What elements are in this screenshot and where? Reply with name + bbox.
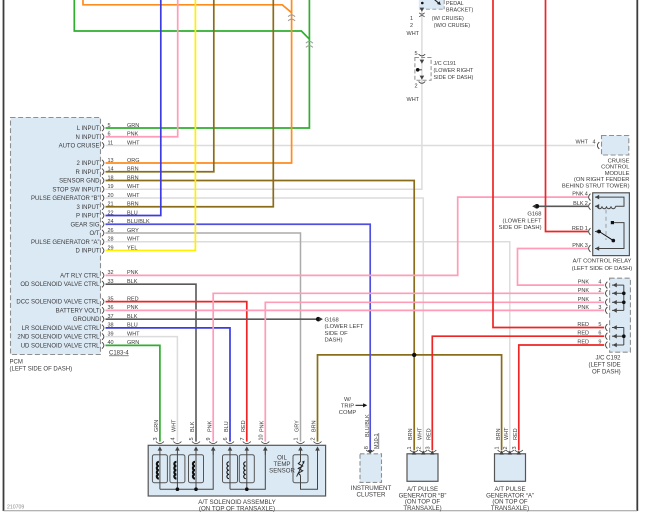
svg-text:OD SOLENOID VALVE CTRL: OD SOLENOID VALVE CTRL bbox=[20, 282, 100, 288]
svg-text:4: 4 bbox=[170, 437, 176, 440]
svg-text:WHT: WHT bbox=[418, 427, 424, 440]
wire WHT pin11 AUTO CRUISE to cruise control module bbox=[106, 145, 596, 147]
svg-text:A/T RLY CTRL: A/T RLY CTRL bbox=[60, 273, 100, 279]
wire ORG vertical from top edge to PCM pin13 2 INPUT bbox=[106, 0, 292, 163]
svg-text:6: 6 bbox=[598, 331, 601, 337]
svg-text:TRIP: TRIP bbox=[341, 403, 354, 409]
svg-text:1: 1 bbox=[495, 446, 501, 449]
svg-text:(LEFT SIDE: (LEFT SIDE bbox=[588, 363, 620, 369]
svg-text:TRANSAXLE): TRANSAXLE) bbox=[403, 505, 441, 512]
svg-text:CONTROL: CONTROL bbox=[601, 165, 630, 171]
svg-text:N INPUT: N INPUT bbox=[76, 135, 100, 141]
svg-text:(LOWER RIGHT: (LOWER RIGHT bbox=[434, 68, 475, 74]
svg-text:210709: 210709 bbox=[7, 505, 24, 511]
wire WHT stoplight/pedal to J/C C191 to PCM pin19 STOP SW INPUT bbox=[106, 8, 422, 189]
svg-text:COMP: COMP bbox=[339, 410, 357, 416]
svg-text:DCC SOLENOID VALVE CTRL: DCC SOLENOID VALVE CTRL bbox=[16, 300, 100, 306]
svg-text:2: 2 bbox=[585, 201, 588, 207]
junction dot on BRN sensor ground bbox=[412, 353, 416, 357]
svg-text:RED: RED bbox=[427, 428, 433, 440]
A/T pulse generator A box bbox=[495, 454, 526, 482]
wire PNK pin36 BATTERY VOLT to J/C C192 pin3 bbox=[106, 309, 605, 311]
svg-text:SIDE OF DASH): SIDE OF DASH) bbox=[499, 225, 542, 231]
svg-text:9: 9 bbox=[206, 437, 212, 440]
wire BRN branch to pulse generator A pin1 bbox=[414, 355, 501, 450]
svg-text:4: 4 bbox=[598, 280, 601, 286]
wire RED from top edge to J/C C192 pin5 bbox=[493, 0, 604, 328]
wire PNK pin6 N INPUT to top edge bbox=[106, 0, 178, 137]
wire RED J/C C192 pin9 to pulse generator A pin3 bbox=[519, 345, 604, 450]
wire GRY pin26 O/T to oil temp sensor pin1 bbox=[106, 233, 301, 442]
svg-text:2: 2 bbox=[311, 437, 317, 440]
svg-text:SIDE OF: SIDE OF bbox=[325, 331, 349, 337]
svg-text:(LOWER LEFT: (LOWER LEFT bbox=[325, 324, 364, 330]
svg-text:AUTO CRUISE: AUTO CRUISE bbox=[59, 144, 100, 150]
solenoid coil L1 bbox=[152, 455, 167, 483]
svg-text:A/T CONTROL RELAY: A/T CONTROL RELAY bbox=[573, 259, 632, 265]
wire PNK relay pin3 to J/C C192 pin4 bbox=[518, 249, 605, 286]
svg-text:PEDAL: PEDAL bbox=[446, 1, 464, 7]
svg-text:BRN: BRN bbox=[408, 428, 414, 440]
svg-text:2: 2 bbox=[414, 84, 417, 90]
wire BLK pin33 OD SOLENOID VALVE CTRL to solenoid pin5 bbox=[106, 284, 197, 441]
svg-text:P INPUT: P INPUT bbox=[76, 214, 100, 220]
svg-text:G168: G168 bbox=[325, 317, 339, 323]
wire PNK J/C C192 pin2 to solenoid pin9 bbox=[213, 293, 604, 441]
svg-text:3: 3 bbox=[425, 446, 431, 449]
svg-text:1: 1 bbox=[407, 446, 413, 449]
svg-text:SIDE OF DASH): SIDE OF DASH) bbox=[434, 75, 474, 81]
svg-text:WHT: WHT bbox=[504, 427, 510, 440]
svg-text:3: 3 bbox=[598, 305, 601, 311]
svg-text:2: 2 bbox=[598, 288, 601, 294]
wire GRN pin40 UD SOLENOID VALVE CTRL to solenoid pin3 bbox=[106, 345, 160, 441]
solenoid coil L5 bbox=[239, 455, 254, 483]
PCM module box bbox=[11, 118, 101, 355]
svg-text:PULSE GENERATOR “A”: PULSE GENERATOR “A” bbox=[31, 240, 99, 246]
ground G168 at PCM pin37 bbox=[316, 317, 321, 322]
svg-text:1: 1 bbox=[294, 437, 300, 440]
svg-text:PCM: PCM bbox=[10, 360, 23, 366]
svg-text:(W/O CRUISE): (W/O CRUISE) bbox=[434, 23, 470, 29]
svg-text:TRANSAXLE): TRANSAXLE) bbox=[491, 505, 529, 512]
svg-text:BATTERY VOLT: BATTERY VOLT bbox=[56, 308, 100, 314]
solenoid return bus 1 to pin9 bbox=[160, 449, 213, 489]
svg-text:G168: G168 bbox=[527, 211, 541, 217]
J/C C192 red bus bbox=[623, 328, 625, 346]
svg-text:2: 2 bbox=[416, 446, 422, 449]
svg-text:OF DASH): OF DASH) bbox=[592, 369, 621, 375]
wire BLU/BLK pin24 GEAR SIG to instrument cluster bbox=[106, 224, 371, 450]
wire BLK relay pin2 to ground G168 bbox=[539, 205, 589, 207]
svg-text:(ON RIGHT FENDER: (ON RIGHT FENDER bbox=[574, 177, 630, 183]
solenoid return bus 2 to pin10 bbox=[230, 449, 265, 489]
svg-text:RED: RED bbox=[577, 331, 589, 337]
svg-text:PULSE GENERATOR “B”: PULSE GENERATOR “B” bbox=[31, 196, 99, 202]
svg-text:(ON TOP OF TRANSAXLE): (ON TOP OF TRANSAXLE) bbox=[199, 505, 275, 512]
svg-text:5: 5 bbox=[189, 437, 195, 440]
svg-text:RED: RED bbox=[572, 226, 584, 232]
wire WHT pin28 PULSE GENERATOR A to pulse generator A pin2 bbox=[106, 242, 510, 451]
svg-text:GRN: GRN bbox=[154, 420, 160, 432]
wire PNK pin32 A/T RLY CTRL to relay pin4 bbox=[106, 197, 589, 275]
svg-text:3: 3 bbox=[512, 446, 518, 449]
wire BRN branch to oil temp sensor pin2 bbox=[318, 355, 415, 442]
wire BRN pin21 3 INPUT to top edge bbox=[106, 0, 274, 207]
inline connector on pedal wire bbox=[419, 13, 424, 17]
svg-text:4: 4 bbox=[585, 192, 588, 198]
svg-text:WHT: WHT bbox=[575, 140, 588, 146]
solenoid coil L3 bbox=[189, 455, 204, 483]
svg-text:3 INPUT: 3 INPUT bbox=[76, 205, 99, 211]
svg-text:2 INPUT: 2 INPUT bbox=[76, 161, 99, 167]
wire BLU pin22 P INPUT to top edge bbox=[106, 0, 161, 216]
A/T pulse generator B box bbox=[407, 454, 438, 482]
svg-text:RED: RED bbox=[241, 420, 247, 432]
svg-text:RED: RED bbox=[577, 340, 589, 346]
svg-text:PNK: PNK bbox=[578, 280, 590, 286]
svg-text:BRACKET): BRACKET) bbox=[446, 8, 473, 14]
svg-text:8: 8 bbox=[364, 446, 370, 449]
svg-text:CRUISE: CRUISE bbox=[608, 158, 630, 164]
svg-text:MODULE: MODULE bbox=[605, 171, 630, 177]
wire ORG top-left branch into vertical riser bbox=[83, 0, 292, 13]
svg-text:SENSOR GND: SENSOR GND bbox=[59, 179, 100, 185]
solenoid coil L4 bbox=[223, 455, 238, 483]
svg-text:PNK: PNK bbox=[572, 192, 584, 198]
svg-text:BLK: BLK bbox=[190, 421, 196, 432]
relay switch bbox=[595, 229, 599, 234]
svg-text:RED: RED bbox=[513, 428, 519, 440]
svg-text:DASH): DASH) bbox=[325, 338, 343, 344]
wire BRN pin14 R INPUT to top edge bbox=[106, 0, 214, 172]
relay actuator dashed link bbox=[605, 210, 607, 241]
svg-text:PNK: PNK bbox=[260, 420, 266, 432]
wire WHT pin20 PULSE GENERATOR B to pulse generator B pin2 bbox=[106, 198, 424, 450]
svg-text:BLU/BLK: BLU/BLK bbox=[365, 414, 371, 437]
wire BLK pin37 GROUND to ground G168 bbox=[106, 318, 318, 320]
svg-text:WHT: WHT bbox=[172, 419, 178, 432]
svg-text:LR SOLENOID VALVE CTRL: LR SOLENOID VALVE CTRL bbox=[22, 326, 100, 332]
wire WHT pin39 2ND SOLENOID VALVE CTRL to solenoid pin4 bbox=[106, 337, 178, 442]
page right border bbox=[636, 0, 638, 511]
page left border bbox=[3, 0, 5, 511]
wire PNK J/C C192 pin1 to solenoid pin10 bbox=[265, 302, 604, 441]
svg-text:STOP SW INPUT: STOP SW INPUT bbox=[52, 187, 99, 193]
svg-text:(LOWER LEFT: (LOWER LEFT bbox=[503, 218, 542, 224]
svg-text:BLU: BLU bbox=[224, 421, 230, 432]
svg-text:PNK: PNK bbox=[572, 243, 584, 249]
svg-text:(LEFT SIDE OF DASH): (LEFT SIDE OF DASH) bbox=[572, 266, 633, 272]
svg-text:D INPUT: D INPUT bbox=[76, 249, 100, 255]
svg-text:L INPUT: L INPUT bbox=[77, 126, 100, 132]
svg-text:CLUSTER: CLUSTER bbox=[357, 492, 386, 499]
svg-text:BRN: BRN bbox=[496, 428, 502, 440]
solenoid coil L2 bbox=[170, 455, 185, 483]
page bottom border bbox=[4, 510, 638, 512]
wire GRN vertical from top edge to PCM pin5 L INPUT bbox=[106, 0, 310, 128]
svg-text:PNK: PNK bbox=[207, 420, 213, 432]
svg-text:BLK: BLK bbox=[573, 201, 584, 207]
svg-text:PNK: PNK bbox=[578, 297, 590, 303]
svg-text:J/C C191: J/C C191 bbox=[434, 61, 456, 67]
svg-text:BRN: BRN bbox=[312, 420, 318, 432]
svg-text:RED: RED bbox=[577, 322, 589, 328]
svg-text:(W/ CRUISE): (W/ CRUISE) bbox=[432, 16, 464, 22]
svg-text:O/T: O/T bbox=[90, 231, 100, 237]
svg-text:WHT: WHT bbox=[407, 31, 420, 37]
stoplight switch on pedal bracket (cut off at top) bbox=[419, 0, 444, 9]
svg-text:2ND SOLENOID VALVE CTRL: 2ND SOLENOID VALVE CTRL bbox=[17, 335, 100, 341]
svg-text:GRY: GRY bbox=[295, 420, 301, 432]
svg-text:R INPUT: R INPUT bbox=[76, 170, 100, 176]
arrow down on pedal wire bbox=[420, 8, 425, 12]
svg-text:WHT: WHT bbox=[407, 97, 420, 103]
svg-text:9: 9 bbox=[598, 340, 601, 346]
svg-text:1: 1 bbox=[585, 226, 588, 232]
wire GRN top-left branch into vertical riser bbox=[74, 0, 309, 39]
crossover arcs on ORG riser bbox=[288, 15, 295, 21]
svg-text:7: 7 bbox=[240, 437, 246, 440]
crossover arcs on GRN riser bbox=[306, 41, 313, 47]
svg-text:(LEFT SIDE OF DASH): (LEFT SIDE OF DASH) bbox=[10, 367, 73, 373]
J/C C192 pink bus bbox=[623, 285, 625, 310]
svg-text:3: 3 bbox=[585, 243, 588, 249]
wire RED J/C C192 pin6 to pulse generator B pin3 bbox=[432, 336, 604, 450]
wire BRN pin18 SENSOR GND to pulse generator B pin1 bbox=[106, 181, 415, 451]
svg-text:2: 2 bbox=[503, 446, 509, 449]
wire BLU pin38 LR SOLENOID VALVE CTRL to solenoid pin6 bbox=[106, 328, 231, 442]
wire RED pin35 DCC SOLENOID VALVE CTRL to solenoid pin7 bbox=[106, 302, 247, 442]
svg-text:J/C C192: J/C C192 bbox=[595, 356, 621, 362]
wire YEL pin29 D INPUT to top edge bbox=[106, 0, 196, 251]
ground G168 at relay pin2 bbox=[535, 204, 540, 209]
svg-text:W/: W/ bbox=[344, 397, 351, 403]
svg-text:10: 10 bbox=[258, 434, 264, 440]
svg-text:3: 3 bbox=[153, 437, 159, 440]
svg-text:5: 5 bbox=[414, 51, 417, 57]
svg-text:4: 4 bbox=[592, 140, 595, 146]
svg-text:5: 5 bbox=[598, 322, 601, 328]
relay coil bbox=[595, 197, 624, 206]
A/T solenoid assembly box bbox=[148, 445, 325, 496]
wire RED from top edge to relay pin1 bbox=[546, 0, 589, 232]
svg-text:GEAR SIG: GEAR SIG bbox=[70, 222, 99, 228]
svg-text:2: 2 bbox=[410, 23, 413, 29]
svg-text:6: 6 bbox=[223, 437, 229, 440]
svg-text:1: 1 bbox=[598, 297, 601, 303]
svg-text:C183-4: C183-4 bbox=[109, 351, 129, 357]
svg-text:PNK: PNK bbox=[578, 288, 590, 294]
svg-text:BEHIND STRUT TOWER): BEHIND STRUT TOWER) bbox=[562, 184, 630, 190]
svg-text:1: 1 bbox=[410, 16, 413, 22]
svg-text:GROUND: GROUND bbox=[73, 317, 100, 323]
svg-text:UD SOLENOID VALVE CTRL: UD SOLENOID VALVE CTRL bbox=[21, 343, 100, 349]
svg-text:SENSOR: SENSOR bbox=[269, 467, 295, 474]
junction connector J/C C192 box bbox=[610, 278, 631, 352]
A/T control relay box bbox=[593, 193, 630, 256]
svg-text:PNK: PNK bbox=[578, 305, 590, 311]
